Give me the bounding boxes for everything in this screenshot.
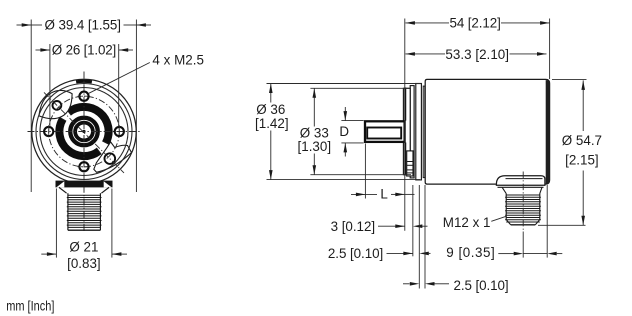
svg-text:9 [0.35]: 9 [0.35]: [446, 245, 494, 260]
body housing: [425, 79, 549, 184]
svg-text:Ø 39.4 [1.55]: Ø 39.4 [1.55]: [45, 18, 122, 33]
flange step circle Ø36: [36, 84, 132, 180]
front connector collar dark band: [56, 181, 113, 194]
flange step P3: [423, 86, 425, 178]
front connector thread M12: [67, 193, 102, 230]
svg-text:3 [0.12]: 3 [0.12]: [331, 219, 376, 234]
svg-text:54 [2.12]: 54 [2.12]: [450, 16, 501, 31]
flange outer circle Ø39.4: [32, 79, 136, 183]
cam pin circle upper-left: [53, 101, 62, 110]
shaft: [365, 121, 405, 142]
svg-text:L: L: [380, 186, 387, 201]
bolt circle Ø26 dash-dot: [49, 96, 120, 167]
svg-text:D: D: [339, 124, 349, 139]
connector thread M12: [505, 194, 507, 220]
svg-text:Ø 21: Ø 21: [69, 239, 98, 254]
clamp ring thick arc upper-right: [69, 107, 109, 143]
rear cap dark band: [546, 80, 550, 184]
screw hole right: [115, 127, 124, 136]
middle ring: [70, 118, 98, 146]
svg-text:2.5 [0.10]: 2.5 [0.10]: [328, 246, 383, 261]
dimension 53.3: [405, 53, 546, 55]
svg-text:53.3 [2.10]: 53.3 [2.10]: [445, 47, 509, 62]
connector neck taper: [502, 187, 542, 193]
dimension 2.5 [0.10] bottom: [403, 185, 449, 289]
orientation tick at 12 o'clock: [76, 80, 92, 84]
dimension 3 [0.12]: [378, 185, 428, 256]
dimension 54: [405, 19, 550, 231]
connector collar: [496, 176, 545, 186]
dimension Ø36: [267, 84, 422, 180]
flange step circle Ø33: [40, 88, 128, 176]
dimension Ø54.7: [538, 79, 587, 225]
collar taper: [59, 187, 109, 193]
flange front face bold segments: [404, 88, 406, 121]
screw hole bottom: [79, 162, 88, 171]
set screw stack below shaft: [407, 151, 413, 176]
dimension D: [341, 107, 363, 157]
diagonal center line through cams: [44, 92, 124, 172]
shaft clamping flat: [367, 128, 401, 139]
dimension 2.5 [0.10] middle: [387, 185, 431, 289]
dimension 9 [0.35]: [498, 185, 562, 258]
dimension Ø26: [36, 44, 134, 127]
svg-text:4 x M2.5: 4 x M2.5: [152, 53, 204, 68]
svg-text:[0.83]: [0.83]: [67, 256, 101, 271]
thread end chamfer: [506, 220, 540, 225]
svg-text:[1.42]: [1.42]: [255, 116, 289, 131]
svg-text:mm [Inch]: mm [Inch]: [6, 299, 54, 314]
dimension Ø21: [41, 189, 127, 258]
cam tab lower-right: [94, 142, 132, 172]
dimension Ø33: [310, 88, 411, 174]
svg-text:2.5 [0.10]: 2.5 [0.10]: [454, 278, 509, 293]
M12 connector side view: [496, 176, 545, 225]
flange plate P1b: [410, 86, 414, 178]
label 4 x M2.5 with leader: [89, 63, 150, 94]
center line horizontal: [28, 131, 141, 133]
svg-text:Ø 36: Ø 36: [256, 102, 285, 117]
dimension Ø39.4: [17, 20, 152, 193]
screw hole top: [79, 92, 88, 101]
svg-text:[1.30]: [1.30]: [298, 139, 332, 154]
cam pin circle lower-right: [105, 153, 116, 164]
connector axis center line: [522, 172, 524, 232]
svg-text:Ø 54.7: Ø 54.7: [562, 133, 602, 148]
svg-text:[2.15]: [2.15]: [565, 153, 599, 168]
svg-text:M12 x 1: M12 x 1: [443, 215, 491, 230]
dimension L: [351, 144, 415, 199]
hub ring: [75, 123, 93, 141]
center line vertical: [83, 72, 85, 232]
screw hole left: [44, 127, 53, 136]
svg-text:Ø 26 [1.02]: Ø 26 [1.02]: [52, 42, 116, 57]
flange plate P2 (Ø36): [416, 84, 422, 180]
clamp ring thick arc lower-left: [59, 119, 98, 156]
label M12 x 1 with leader: [491, 216, 506, 221]
flange plate P1a (Ø33 pilot): [403, 88, 410, 174]
eccentric clamp lobe upper-left: [39, 90, 72, 118]
clamp ring end cap lines: [96, 148, 101, 154]
center dot: [82, 130, 85, 133]
